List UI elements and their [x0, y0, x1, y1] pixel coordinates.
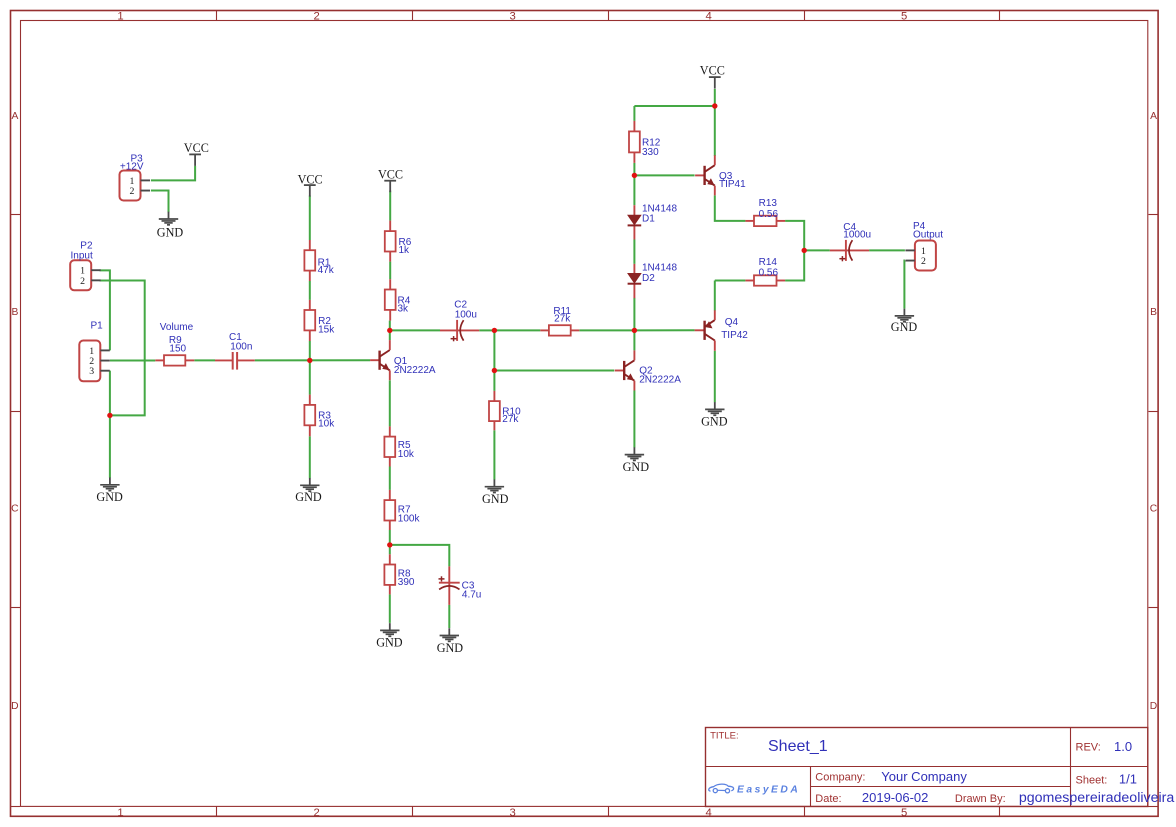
svg-text:2019-06-02: 2019-06-02 [862, 790, 929, 805]
svg-text:2: 2 [129, 186, 134, 197]
svg-text:D: D [1150, 701, 1157, 712]
svg-text:R13: R13 [759, 198, 778, 209]
svg-text:2: 2 [314, 807, 320, 819]
svg-text:C: C [11, 503, 19, 514]
svg-text:GND: GND [376, 636, 403, 650]
svg-text:Date:: Date: [815, 793, 841, 805]
svg-text:3k: 3k [398, 303, 410, 314]
svg-text:2: 2 [921, 256, 926, 267]
svg-text:Drawn By:: Drawn By: [955, 793, 1006, 805]
svg-text:1/1: 1/1 [1119, 772, 1137, 787]
svg-text:Sheet:: Sheet: [1076, 775, 1108, 787]
svg-text:4: 4 [706, 10, 712, 22]
svg-text:TIP42: TIP42 [721, 330, 748, 341]
svg-text:1k: 1k [399, 245, 411, 256]
svg-text:100k: 100k [398, 513, 421, 524]
svg-text:GND: GND [701, 414, 728, 428]
svg-text:0.56: 0.56 [759, 268, 779, 279]
svg-text:D: D [11, 701, 18, 712]
svg-text:47k: 47k [318, 265, 335, 276]
svg-text:5: 5 [901, 10, 907, 22]
svg-text:3: 3 [510, 807, 516, 819]
svg-text:A: A [11, 111, 18, 122]
svg-text:Your Company: Your Company [881, 769, 967, 784]
svg-text:3: 3 [89, 366, 94, 377]
svg-text:4: 4 [706, 807, 712, 819]
svg-text:GND: GND [623, 460, 650, 474]
svg-text:D1: D1 [642, 214, 655, 225]
svg-text:GND: GND [295, 490, 322, 504]
svg-text:Input: Input [71, 250, 93, 261]
svg-text:R14: R14 [759, 257, 778, 268]
svg-text:B: B [1150, 307, 1157, 318]
svg-text:100u: 100u [455, 309, 477, 320]
svg-text:B: B [11, 307, 18, 318]
svg-text:10k: 10k [318, 419, 335, 430]
svg-text:2: 2 [80, 276, 85, 287]
svg-text:Sheet_1: Sheet_1 [768, 738, 828, 755]
svg-text:VCC: VCC [184, 141, 209, 155]
svg-text:2N2222A: 2N2222A [394, 365, 436, 376]
svg-text:+12V: +12V [120, 162, 144, 173]
svg-text:15k: 15k [318, 324, 335, 335]
svg-text:GND: GND [157, 225, 184, 239]
svg-text:GND: GND [891, 320, 918, 334]
svg-text:150: 150 [169, 343, 186, 354]
svg-text:Volume: Volume [160, 322, 194, 333]
svg-text:VCC: VCC [378, 168, 403, 182]
svg-text:3: 3 [510, 10, 516, 22]
svg-text:1: 1 [117, 10, 123, 22]
svg-text:pgomespereiradeoliveira: pgomespereiradeoliveira [1019, 790, 1174, 806]
svg-text:2N2222A: 2N2222A [639, 375, 681, 386]
svg-text:D2: D2 [642, 273, 655, 284]
svg-text:1.0: 1.0 [1114, 739, 1132, 754]
svg-text:100n: 100n [230, 342, 252, 353]
svg-text:EasyEDA: EasyEDA [737, 785, 800, 796]
svg-text:VCC: VCC [298, 172, 323, 186]
svg-text:Q4: Q4 [725, 317, 739, 328]
svg-text:1N4148: 1N4148 [642, 262, 677, 273]
svg-text:27k: 27k [554, 314, 571, 325]
svg-text:5: 5 [901, 807, 907, 819]
svg-text:Output: Output [913, 230, 943, 241]
svg-text:1: 1 [117, 807, 123, 819]
svg-text:330: 330 [642, 147, 659, 158]
svg-text:C: C [1150, 503, 1158, 514]
svg-text:GND: GND [96, 490, 123, 504]
svg-text:GND: GND [437, 641, 464, 655]
svg-text:TIP41: TIP41 [719, 179, 746, 190]
svg-text:2: 2 [314, 10, 320, 22]
svg-text:REV:: REV: [1076, 741, 1101, 753]
svg-text:27k: 27k [502, 414, 519, 425]
svg-text:390: 390 [398, 577, 415, 588]
svg-text:A: A [1150, 111, 1157, 122]
svg-text:VCC: VCC [700, 63, 725, 77]
svg-text:GND: GND [482, 492, 509, 506]
svg-text:4.7u: 4.7u [462, 590, 481, 601]
svg-text:TITLE:: TITLE: [710, 730, 739, 741]
svg-text:Company:: Company: [815, 771, 865, 783]
svg-text:P1: P1 [91, 321, 104, 332]
svg-text:0.56: 0.56 [759, 209, 779, 220]
svg-text:10k: 10k [398, 449, 415, 460]
svg-text:1000u: 1000u [843, 230, 871, 241]
